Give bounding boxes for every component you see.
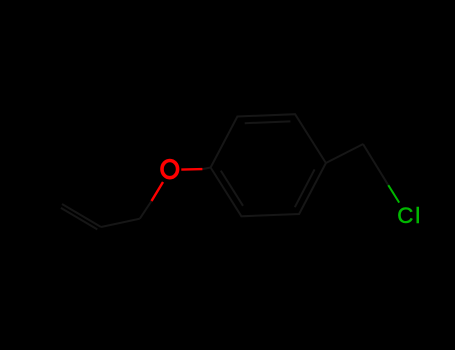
svg-text:Cl: Cl [397,203,422,228]
